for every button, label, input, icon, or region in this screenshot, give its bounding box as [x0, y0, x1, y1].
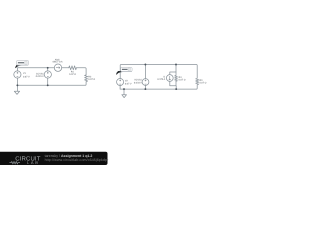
svg-text:CCVS1: CCVS1 [36, 72, 44, 75]
svg-text:0.07 Ω: 0.07 Ω [88, 78, 95, 81]
svg-text:0.07 V: 0.07 V [23, 75, 30, 78]
svg-text:LAB: LAB [27, 160, 40, 165]
svg-text:0.07 Ω: 0.07 Ω [200, 81, 207, 84]
svg-text:0.07 Ω: 0.07 Ω [69, 73, 76, 76]
svg-text:0.07 Ω: 0.07 Ω [179, 79, 186, 82]
svg-text:VCVS1: VCVS1 [134, 79, 142, 82]
svg-text:R4: R4 [179, 76, 183, 79]
svg-text:V2: V2 [125, 79, 129, 82]
svg-text:0.373 A: 0.373 A [157, 78, 165, 81]
svg-text:0.033 V: 0.033 V [134, 81, 142, 84]
svg-text:0.07 V: 0.07 V [125, 83, 132, 86]
svg-text:0.033 V: 0.033 V [36, 75, 44, 78]
svg-text:666.7 mA: 666.7 mA [53, 61, 63, 64]
svg-text:http://www.circuitlab.com/c645: http://www.circuitlab.com/c645j6pkdpr [45, 158, 109, 162]
svg-text:V1: V1 [23, 72, 27, 75]
